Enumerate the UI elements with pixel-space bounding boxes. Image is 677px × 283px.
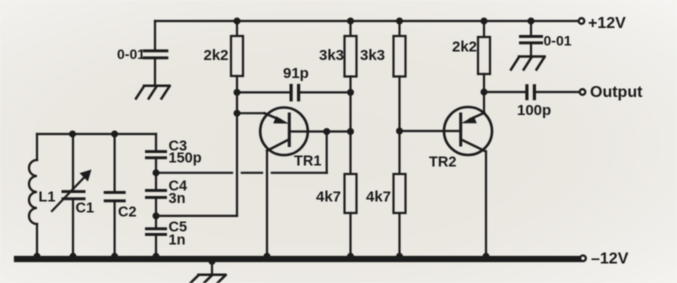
capacitor C8 91p : left wire: [237, 91, 290, 93]
resistor R2 3k3: [349, 21, 351, 36]
wire -12V bottom rail: [17, 256, 580, 262]
capacitor C7 plates: [519, 35, 543, 44]
svg-text:0-01: 0-01: [117, 46, 145, 62]
capacitor C5 1n plates: [145, 227, 167, 236]
ground chassis symbol left: [136, 86, 170, 99]
node rail top at R2: [347, 18, 354, 25]
capacitor C8 plates: [290, 84, 301, 102]
svg-text:L1: L1: [39, 190, 56, 206]
node rail bottom at L1: [34, 253, 41, 260]
wire tank top: [37, 133, 156, 135]
svg-text:1n: 1n: [169, 233, 186, 249]
node 91p left: [234, 89, 241, 96]
svg-text:150p: 150p: [169, 151, 202, 167]
wire TR1 base to divider: [289, 130, 350, 132]
node rail bottom at R4: [347, 253, 354, 260]
transistor TR2 collector: [461, 140, 486, 152]
svg-text:3k3: 3k3: [360, 47, 385, 64]
resistor R5 4k7 second: [394, 174, 406, 213]
wire C4/C5 junction to emitter node: [156, 215, 237, 217]
svg-text:0-01: 0-01: [544, 33, 572, 49]
terminal -12V: [580, 255, 586, 261]
wire R2 bottom down to 4k7: [349, 77, 351, 175]
capacitor C2 plates: [104, 191, 126, 202]
node TR2 base divider: [396, 128, 403, 135]
inductor L1: [36, 134, 38, 160]
wire R3 bottom down to 4k7 second: [398, 77, 400, 175]
resistor R6 2k2 right: [483, 21, 485, 37]
node rail bottom at R5: [396, 253, 403, 260]
node TR1 base feedback: [323, 128, 330, 135]
capacitor C7 0-01 decoupling right : lead: [530, 21, 532, 36]
capacitor C4 3n plates: [145, 189, 167, 199]
node rail bottom at TR1 collector: [264, 253, 271, 260]
resistor R4 4k7: [345, 174, 357, 213]
capacitor C2 : leads: [113, 134, 115, 191]
svg-text:TR1: TR1: [294, 154, 321, 170]
capacitor C3 150p : lead from tank wire: [155, 134, 157, 151]
resistor R3 3k3 second: [398, 21, 400, 36]
capacitor C1 arrow: [52, 177, 85, 211]
transistor TR2 base bar: [459, 114, 462, 145]
wire C8 right to 3k3 node: [300, 91, 350, 93]
ground chassis symbol bottom: [211, 259, 213, 275]
terminal Output: [580, 89, 586, 95]
wire C3 to C4: [155, 159, 157, 189]
node rail top at R1: [234, 18, 241, 25]
svg-text:C2: C2: [118, 205, 137, 221]
svg-text:2k2: 2k2: [204, 47, 229, 64]
svg-text:91p: 91p: [283, 65, 309, 82]
node rail bottom at ground: [209, 258, 216, 265]
wire C6 to ground: [154, 59, 156, 85]
capacitor C9 100p plates: [525, 84, 536, 100]
svg-text:100p: 100p: [517, 102, 551, 119]
node rail bottom at C5: [153, 253, 160, 260]
node rail bottom at C2: [111, 253, 118, 260]
wire R1 bottom vertical down to C4/C5 tap: [236, 76, 238, 216]
wire C5 to rail: [155, 236, 157, 258]
transistor TR1 circle: [260, 108, 308, 156]
node C4/C5 junction: [153, 212, 160, 219]
wire +12V top rail: [155, 20, 579, 22]
node tank top at C1: [69, 131, 76, 138]
svg-text:TR2: TR2: [429, 155, 456, 171]
node rail bottom at C1: [70, 253, 77, 260]
transistor TR2 emitter arrow: [470, 113, 484, 119]
wire C4 to C5: [155, 199, 157, 228]
capacitor C1 variable : leads: [72, 134, 74, 190]
transistor TR2 circle: [444, 107, 492, 155]
wire TR2 emitter lead from output node: [483, 92, 485, 113]
transistor TR1 collector: [267, 140, 289, 151]
node C3/C4 junction: [153, 169, 160, 176]
resistor R1 2k2 left: [236, 21, 238, 36]
svg-text:4k7: 4k7: [316, 189, 341, 206]
transistor TR1 emitter arrow: [265, 113, 281, 120]
node TR1 emitter tap: [234, 110, 241, 117]
node rail top at C7: [528, 18, 535, 25]
svg-text:2k2: 2k2: [452, 39, 477, 56]
svg-text:3n: 3n: [169, 191, 186, 207]
capacitor C1 plates: [62, 190, 86, 200]
terminal +12V: [579, 18, 585, 24]
capacitor C6 plates: [143, 49, 169, 59]
transistor TR1 base bar: [288, 114, 291, 146]
node output tap: [481, 89, 488, 96]
wire TR2 base to divider: [400, 130, 461, 132]
ground chassis symbol right: [511, 57, 545, 70]
node 91p right: [347, 89, 354, 96]
svg-text:Output: Output: [590, 84, 643, 101]
svg-text:4k7: 4k7: [366, 189, 391, 206]
node TR1 base divider: [347, 128, 354, 135]
svg-text:+12V: +12V: [588, 15, 626, 32]
wire output line: [484, 91, 526, 93]
svg-text:3k3: 3k3: [319, 47, 344, 64]
wire C3/C4 tap to TR1 base node with hops: [156, 172, 232, 174]
svg-text:–12V: –12V: [591, 251, 629, 268]
wire C9 to output terminal: [536, 91, 580, 93]
capacitor C3 plates: [145, 150, 167, 159]
wire C7 to ground: [530, 44, 532, 56]
node rail bottom at TR2 collector: [483, 253, 490, 260]
svg-text:C1: C1: [76, 201, 95, 217]
node tank top at C2: [111, 131, 118, 138]
wire TR1 emitter: [237, 112, 265, 114]
node rail top at R6: [481, 18, 488, 25]
node rail top at R3: [396, 18, 403, 25]
capacitor C6 0-01 decoupling left : lead: [154, 21, 156, 50]
